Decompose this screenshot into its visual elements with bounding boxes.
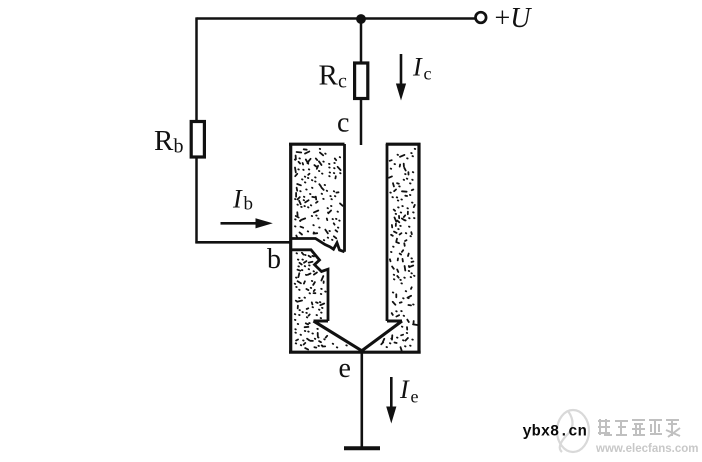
svg-text:c: c <box>338 71 347 93</box>
wire from junction to Rc <box>360 19 363 64</box>
terminal +U open circle <box>476 12 487 23</box>
node junction dot <box>356 14 366 24</box>
transistor block stipple upper-left region <box>295 149 343 241</box>
svg-text:c: c <box>424 64 432 84</box>
emitter arrowhead shoulders and diagonals <box>314 321 403 351</box>
transistor block stipple right region <box>381 149 417 351</box>
base channel top jagged edge <box>291 239 345 252</box>
svg-text:R: R <box>319 60 339 92</box>
svg-text:I: I <box>412 53 423 82</box>
ground <box>344 446 380 450</box>
resistor Rc <box>355 63 368 99</box>
svg-text:www.elecfans.com: www.elecfans.com <box>595 443 698 455</box>
transistor emitter-arrow shaft right edge <box>386 144 389 321</box>
svg-text:R: R <box>154 125 174 157</box>
svg-text:e: e <box>339 353 351 384</box>
svg-text:I: I <box>232 185 243 214</box>
transistor block stipple lower-left region <box>295 253 347 350</box>
arrow Ie <box>390 377 393 409</box>
transistor block outer border <box>289 143 421 354</box>
wire base horizontal (b lead) <box>195 241 290 244</box>
svg-text:ybx8.cn: ybx8.cn <box>523 423 587 441</box>
wire top horizontal (+U rail) <box>197 17 476 20</box>
svg-text:e: e <box>411 387 419 407</box>
wire left vertical (to Rb) <box>195 17 198 122</box>
arrow Ic <box>400 54 403 86</box>
watermark chinese glyph blocks <box>598 419 680 437</box>
svg-text:b: b <box>267 244 281 275</box>
svg-text:b: b <box>174 136 184 158</box>
svg-text:c: c <box>337 108 349 139</box>
wire below Rb <box>195 157 198 244</box>
transistor emitter-arrow shaft left edge <box>343 144 346 252</box>
base channel bottom jagged edge <box>291 250 328 321</box>
wire emitter vertical <box>360 351 363 448</box>
arrow Ib <box>221 222 259 225</box>
resistor Rb <box>191 122 204 158</box>
svg-text:I: I <box>399 375 410 404</box>
svg-text:b: b <box>244 194 254 215</box>
watermark elecfans logo circle <box>557 410 589 452</box>
wire from Rc to collector <box>360 98 363 145</box>
svg-text:+U: +U <box>495 3 533 34</box>
